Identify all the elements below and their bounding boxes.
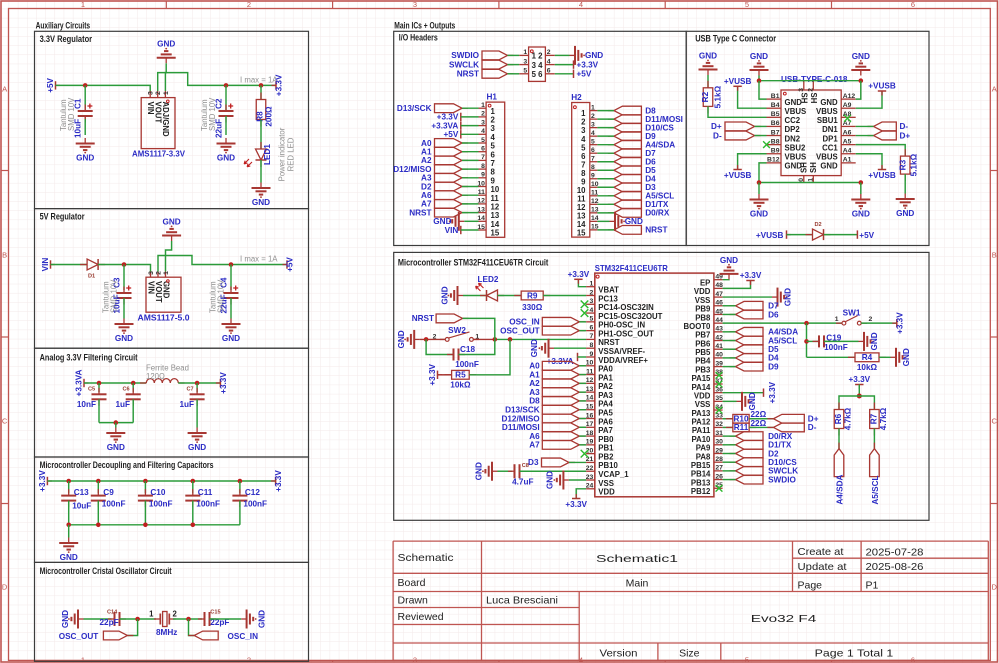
svg-text:330Ω: 330Ω bbox=[522, 303, 543, 312]
junction node C3 top bbox=[122, 262, 127, 267]
net flag D11/MOSI (MCU pin 17) bbox=[579, 426, 585, 428]
net flag NRST (H2 pin 15) bbox=[608, 229, 614, 231]
svg-text:Size: Size bbox=[679, 648, 700, 660]
H1 pin 3 bbox=[479, 125, 487, 127]
junction node R5 tap bbox=[508, 337, 513, 342]
svg-text:GND: GND bbox=[474, 462, 483, 480]
svg-text:+5V: +5V bbox=[46, 77, 55, 92]
wire flag to H1 pin bbox=[462, 203, 479, 205]
no-connect X pin25 PB12 bbox=[716, 485, 723, 492]
net flag A3 (MCU pin 13) bbox=[579, 391, 585, 393]
svg-text:PB4: PB4 bbox=[695, 357, 711, 366]
junction node bottom rail bbox=[143, 523, 148, 528]
svg-text:Schematic: Schematic bbox=[398, 552, 454, 564]
decoupling bottom rail bbox=[69, 524, 240, 526]
svg-text:GND: GND bbox=[546, 471, 555, 489]
svg-text:GND: GND bbox=[440, 286, 449, 304]
svg-text:GND: GND bbox=[784, 288, 793, 306]
svg-text:D11/MOSI: D11/MOSI bbox=[502, 423, 540, 432]
net flag D3 (H2 pin 10) bbox=[608, 186, 614, 188]
svg-text:D0/RX: D0/RX bbox=[768, 432, 793, 441]
svg-text:STM32F411CEU6TR: STM32F411CEU6TR bbox=[595, 264, 668, 273]
svg-text:D+: D+ bbox=[711, 122, 722, 131]
wire gnd to pin23 bbox=[569, 479, 586, 481]
svg-text:SW2: SW2 bbox=[448, 326, 466, 335]
svg-text:A4/SDA: A4/SDA bbox=[835, 474, 844, 504]
svg-text:PA4: PA4 bbox=[598, 400, 613, 409]
net flag D2 (MCU pin 29) bbox=[730, 453, 736, 455]
svg-text:D-: D- bbox=[900, 122, 909, 131]
net flag D0/RX (H2 pin 13) bbox=[608, 212, 614, 214]
svg-text:18: 18 bbox=[586, 430, 594, 437]
svg-text:VSS: VSS bbox=[695, 296, 711, 305]
svg-text:GND: GND bbox=[902, 348, 911, 366]
svg-text:SW1: SW1 bbox=[843, 308, 861, 317]
ground below C1 bbox=[84, 138, 86, 144]
svg-text:GND: GND bbox=[852, 210, 870, 219]
svg-text:2: 2 bbox=[807, 88, 814, 92]
svg-text:14: 14 bbox=[477, 215, 485, 222]
wire +3.3V to pullup tee bbox=[858, 385, 860, 397]
svg-text:LED2: LED2 bbox=[478, 275, 499, 284]
svg-text:10: 10 bbox=[477, 180, 485, 187]
svg-text:SMD 10V: SMD 10V bbox=[217, 279, 226, 313]
USB pin B9 (VBUS) bbox=[767, 153, 782, 155]
power flag +5V (H1 pin 4) bbox=[460, 130, 462, 138]
H1 pin 12 bbox=[479, 203, 487, 205]
wire flag to H1 pin bbox=[462, 177, 479, 179]
USB pin A5 (CC1) bbox=[841, 144, 856, 146]
svg-text:8: 8 bbox=[491, 168, 496, 177]
wire SW1 to +3.3V bbox=[861, 322, 897, 324]
USB shield pins SH top bbox=[803, 81, 805, 90]
svg-text:VSS: VSS bbox=[695, 400, 711, 409]
svg-text:A2: A2 bbox=[421, 156, 432, 165]
svg-text:8: 8 bbox=[591, 164, 595, 171]
svg-text:A7: A7 bbox=[421, 200, 432, 209]
svg-text:9: 9 bbox=[591, 173, 595, 180]
svg-text:D1: D1 bbox=[88, 274, 95, 280]
svg-text:5: 5 bbox=[745, 0, 749, 9]
svg-text:R10: R10 bbox=[733, 415, 748, 424]
svg-text:21: 21 bbox=[586, 456, 594, 463]
svg-text:19: 19 bbox=[586, 439, 594, 446]
svg-text:48: 48 bbox=[715, 282, 723, 289]
svg-text:GND: GND bbox=[870, 332, 879, 350]
resistor R11 22 ohm (PA11) bbox=[723, 426, 733, 428]
svg-text:PA15: PA15 bbox=[691, 374, 711, 383]
net flag D1/TX (MCU pin 30) bbox=[730, 444, 736, 446]
connector J1 SWD header body bbox=[529, 47, 546, 81]
wire crystal to C15 bbox=[173, 618, 202, 620]
junction node top rail right bbox=[859, 78, 864, 83]
svg-text:SH: SH bbox=[800, 162, 809, 173]
svg-text:4: 4 bbox=[547, 58, 551, 65]
svg-text:+3.3V: +3.3V bbox=[219, 372, 228, 394]
junction node C7 top bbox=[195, 381, 200, 386]
wire H2 pin to flag bbox=[597, 195, 614, 197]
H2 pin 1 bbox=[590, 110, 598, 112]
svg-text:PB13: PB13 bbox=[691, 478, 711, 487]
svg-text:11: 11 bbox=[586, 368, 593, 375]
switch SW1 bbox=[836, 322, 842, 324]
capacitor C19 100nF bbox=[807, 340, 820, 342]
svg-text:D+: D+ bbox=[808, 415, 819, 424]
svg-text:PB7: PB7 bbox=[695, 331, 710, 340]
svg-text:1: 1 bbox=[163, 91, 170, 95]
section box Microcontroller Decoupling and Filtering Capacitors bbox=[35, 457, 309, 562]
svg-text:4: 4 bbox=[481, 128, 485, 135]
net flag D12/MISO (MCU pin 16) bbox=[579, 418, 585, 420]
svg-text:35: 35 bbox=[715, 395, 723, 402]
svg-text:Luca Bresciani: Luca Bresciani bbox=[486, 595, 558, 607]
svg-text:C9: C9 bbox=[103, 488, 114, 497]
svg-text:PA8: PA8 bbox=[696, 452, 711, 461]
svg-text:+5V: +5V bbox=[577, 70, 592, 79]
wire pin4 to +3.3V bbox=[555, 64, 574, 66]
svg-text:5.1kΩ: 5.1kΩ bbox=[910, 153, 919, 176]
svg-text:+3.3V: +3.3V bbox=[565, 500, 587, 509]
wire R9 to PC13 pin2 bbox=[543, 294, 586, 296]
svg-text:15: 15 bbox=[491, 229, 500, 238]
svg-text:4.7kΩ: 4.7kΩ bbox=[844, 407, 853, 430]
svg-text:PA6: PA6 bbox=[598, 417, 613, 426]
svg-text:2: 2 bbox=[155, 91, 162, 95]
svg-text:+3.3V: +3.3V bbox=[740, 271, 762, 280]
svg-text:PA14: PA14 bbox=[691, 383, 711, 392]
svg-text:B: B bbox=[992, 251, 997, 260]
svg-text:D12/MISO: D12/MISO bbox=[501, 414, 540, 423]
power flag +VUSB (A9) bbox=[856, 91, 882, 108]
svg-text:NRST: NRST bbox=[409, 208, 431, 217]
ground right of C15 bbox=[241, 618, 247, 620]
svg-text:SMD 10V: SMD 10V bbox=[67, 97, 76, 131]
H1 pin 14 bbox=[479, 220, 487, 222]
svg-text:12: 12 bbox=[477, 198, 485, 205]
svg-text:4: 4 bbox=[579, 0, 583, 9]
svg-text:15: 15 bbox=[577, 228, 586, 237]
H2 pin 4 bbox=[590, 135, 598, 137]
wire power flag to H1 pin bbox=[461, 133, 479, 135]
wire flag to H1 pin bbox=[462, 194, 479, 196]
net flag D13/SCK (H1 pin 1) bbox=[462, 107, 468, 109]
ground below C7 bbox=[196, 428, 198, 434]
svg-text:14: 14 bbox=[586, 395, 594, 402]
wire B12 GND to bottom rail bbox=[759, 163, 767, 183]
svg-text:NRST: NRST bbox=[457, 70, 479, 79]
svg-text:27: 27 bbox=[715, 465, 723, 472]
capacitor C7 1uF bbox=[196, 383, 198, 392]
H1 pin 8 bbox=[479, 168, 487, 170]
svg-text:1: 1 bbox=[835, 316, 839, 323]
wire H2 pin to flag bbox=[597, 212, 614, 214]
wire +5V rail to AMS1117-3.3 VIN bbox=[56, 85, 151, 92]
svg-text:1: 1 bbox=[81, 0, 85, 9]
svg-text:A4/SDA: A4/SDA bbox=[768, 328, 798, 337]
svg-text:PC15-OSC32OUT: PC15-OSC32OUT bbox=[598, 312, 662, 321]
H1 pin 9 bbox=[479, 177, 487, 179]
wire OSC_OUT flag to pin6 bbox=[579, 330, 586, 332]
wire flag to H1 pin bbox=[462, 107, 479, 109]
wire R7 to A5/SCL tag bbox=[873, 429, 875, 449]
svg-text:C14: C14 bbox=[107, 610, 118, 616]
svg-text:13: 13 bbox=[491, 211, 500, 220]
wire R8 to LED1 bbox=[260, 120, 262, 149]
svg-text:D-: D- bbox=[808, 423, 817, 432]
svg-text:OSC_IN: OSC_IN bbox=[509, 318, 540, 327]
svg-text:VDD: VDD bbox=[598, 488, 615, 497]
svg-text:R2: R2 bbox=[701, 91, 710, 102]
svg-text:PA12: PA12 bbox=[691, 418, 711, 427]
svg-text:RED LED: RED LED bbox=[287, 137, 296, 171]
svg-text:A3: A3 bbox=[421, 174, 432, 183]
svg-text:AMS1117-3.3V: AMS1117-3.3V bbox=[132, 150, 186, 159]
wire pin6 to +5V bbox=[555, 73, 574, 75]
svg-text:45: 45 bbox=[715, 308, 723, 315]
svg-text:B5: B5 bbox=[771, 111, 780, 118]
power flag +3.3V (filter output) bbox=[216, 382, 221, 384]
svg-text:D7: D7 bbox=[768, 302, 779, 311]
svg-text:H1: H1 bbox=[487, 93, 498, 102]
wire D+ flag to B6 bbox=[755, 125, 767, 127]
wire OSC_IN flag to pin5 bbox=[579, 321, 586, 323]
svg-text:47: 47 bbox=[715, 291, 723, 298]
net flag D4 (H2 pin 9) bbox=[608, 178, 614, 180]
svg-text:10uF: 10uF bbox=[72, 502, 91, 511]
ground left of SW2 bbox=[414, 338, 420, 340]
svg-text:GND: GND bbox=[397, 330, 406, 348]
wire SW2 to MCU NRST pin7 bbox=[473, 338, 495, 340]
wire to R4 bbox=[807, 356, 856, 358]
wire tee to R6 bbox=[839, 396, 859, 410]
ground right of VSS pin47 bbox=[723, 296, 772, 298]
svg-text:GND: GND bbox=[820, 98, 838, 107]
svg-text:OSC_IN: OSC_IN bbox=[228, 632, 259, 641]
svg-text:Reviewed: Reviewed bbox=[398, 611, 444, 623]
H2 pin 2 bbox=[590, 118, 598, 120]
svg-text:PA5: PA5 bbox=[598, 409, 613, 418]
junction node C13 top bbox=[66, 479, 71, 484]
svg-text:PB5: PB5 bbox=[695, 348, 711, 357]
svg-text:PH0-OSC_IN: PH0-OSC_IN bbox=[598, 321, 645, 330]
wire D2 to +5V bbox=[824, 234, 858, 236]
wire SWDIO to pin1 bbox=[508, 54, 520, 56]
svg-text:PB2: PB2 bbox=[598, 452, 614, 461]
wire R3 to ground bbox=[904, 174, 906, 193]
junction node C10 top bbox=[143, 479, 148, 484]
net flag OSC_IN (pin5) bbox=[579, 321, 585, 323]
svg-text:5 6: 5 6 bbox=[532, 70, 544, 79]
USB pin A6 (DP1) bbox=[841, 135, 856, 137]
svg-text:SWCLK: SWCLK bbox=[768, 467, 798, 476]
wire H2 pin to flag bbox=[597, 127, 614, 129]
ground below LED1 bbox=[260, 183, 262, 189]
svg-text:12: 12 bbox=[586, 377, 594, 384]
H2 pin 12 bbox=[590, 203, 598, 205]
power flag +5V (D2 cathode) bbox=[856, 230, 858, 238]
svg-text:39: 39 bbox=[715, 360, 723, 367]
svg-text:5: 5 bbox=[523, 68, 527, 75]
svg-text:29: 29 bbox=[715, 447, 723, 454]
net flag D2 (H1 pin 10) bbox=[462, 186, 468, 188]
power flag +3.3V (SWD pin4) bbox=[573, 60, 575, 68]
wire BOOT0 branch down bbox=[806, 323, 808, 357]
capacitor C8 4.7uF bbox=[508, 470, 515, 472]
ground bottom-left USB bbox=[758, 183, 760, 195]
resistor R7 4.7k bbox=[873, 403, 875, 410]
power flag +5V (SWD pin6) bbox=[573, 70, 575, 78]
resistor R2 5.1k bbox=[707, 75, 709, 88]
svg-text:1: 1 bbox=[163, 271, 170, 275]
svg-text:10kΩ: 10kΩ bbox=[450, 381, 471, 390]
power flag +3.3VA (pin9) bbox=[577, 353, 579, 361]
svg-text:GND: GND bbox=[896, 209, 914, 218]
wire flag to H1 pin bbox=[462, 151, 479, 153]
svg-text:BOOT0: BOOT0 bbox=[684, 322, 712, 331]
svg-text:3: 3 bbox=[591, 121, 595, 128]
power flag +3.3V (VDD pin48) bbox=[723, 281, 751, 289]
ground (H2 pin 14) bbox=[610, 220, 616, 222]
svg-text:+VUSB: +VUSB bbox=[724, 171, 752, 180]
svg-text:VIN: VIN bbox=[445, 226, 459, 235]
net flag D7 (H2 pin 6) bbox=[608, 152, 614, 154]
svg-text:D5: D5 bbox=[768, 345, 779, 354]
svg-text:A6: A6 bbox=[843, 129, 852, 136]
junction node C5-C6 gnd bbox=[114, 420, 119, 425]
wire flag to H1 pin bbox=[462, 159, 479, 161]
wire flag to H1 pin bbox=[462, 212, 479, 214]
capacitor C14 22pF bbox=[108, 618, 115, 620]
svg-text:4: 4 bbox=[591, 130, 595, 137]
wire H2 pin to flag bbox=[597, 186, 614, 188]
frame ruler ticks left/right bbox=[1, 170, 9, 172]
svg-text:GND: GND bbox=[222, 334, 240, 343]
power flag +VUSB (D2 anode) bbox=[787, 234, 792, 236]
junction node top rail left bbox=[757, 78, 762, 83]
capacitor C13 10uF bbox=[68, 481, 70, 493]
svg-text:100nF: 100nF bbox=[149, 500, 173, 509]
wire R10 to D+ flag bbox=[749, 418, 773, 420]
junction node C1 top bbox=[83, 83, 88, 88]
H1 pin 7 bbox=[479, 159, 487, 161]
svg-text:120Ω: 120Ω bbox=[146, 372, 165, 381]
wire R6 to A4/SDA tag bbox=[838, 429, 840, 449]
svg-text:GND: GND bbox=[252, 198, 270, 207]
H1 pin 2 bbox=[479, 116, 487, 118]
ground to VSSA pin8 bbox=[549, 347, 555, 349]
net flag A5/SCL (H2 pin 11) bbox=[608, 195, 614, 197]
svg-text:PA11: PA11 bbox=[692, 426, 711, 435]
svg-text:26: 26 bbox=[715, 473, 723, 480]
svg-text:D6: D6 bbox=[768, 310, 779, 319]
net flag A7 (H1 pin 12) bbox=[462, 203, 468, 205]
wire tee to R7 bbox=[859, 396, 874, 410]
svg-text:9: 9 bbox=[590, 351, 594, 358]
junction node OSC_IN tap bbox=[186, 617, 191, 622]
svg-text:D2: D2 bbox=[421, 182, 432, 191]
svg-text:6: 6 bbox=[911, 656, 915, 663]
power flag +3.3V (R5 pullup) bbox=[438, 374, 443, 376]
svg-text:VBAT: VBAT bbox=[598, 286, 619, 295]
net flag D10/CS (MCU pin 28) bbox=[730, 461, 736, 463]
switch SW2 bbox=[440, 338, 445, 340]
junction node bottom rail bbox=[191, 523, 196, 528]
svg-text:DP2: DP2 bbox=[785, 125, 801, 134]
svg-text:14: 14 bbox=[491, 220, 500, 229]
svg-text:PB12: PB12 bbox=[691, 487, 711, 496]
net flag A0 (MCU pin 10) bbox=[579, 365, 585, 367]
svg-text:GND: GND bbox=[258, 610, 267, 628]
svg-text:AMS1117-5.0: AMS1117-5.0 bbox=[138, 314, 190, 323]
wire top gnd to shield rail bbox=[758, 76, 760, 81]
net flag D13/SCK (MCU pin 15) bbox=[579, 409, 585, 411]
USB pin B4 (VBUS) bbox=[767, 107, 782, 109]
no-connect X pin3 bbox=[581, 300, 589, 308]
ground left of LED2 bbox=[458, 294, 464, 296]
connector USB-TYPE-C-018 body bbox=[781, 90, 841, 176]
svg-text:B7: B7 bbox=[771, 129, 780, 136]
svg-text:3.3V Regulator: 3.3V Regulator bbox=[40, 33, 93, 44]
regulator U AMS1117-3.3 bbox=[141, 98, 175, 149]
power flag VIN (H1 pin 15) bbox=[460, 226, 462, 234]
svg-text:44: 44 bbox=[715, 317, 723, 324]
svg-text:3: 3 bbox=[523, 58, 527, 65]
power flag +3.3VA (H1 pin 3) bbox=[460, 121, 462, 129]
svg-text:GND: GND bbox=[748, 392, 757, 410]
svg-text:10: 10 bbox=[491, 185, 500, 194]
wire NRST to pin5 bbox=[508, 73, 520, 75]
capacitor C12 100nF bbox=[239, 481, 241, 493]
svg-text:C6: C6 bbox=[123, 387, 130, 393]
svg-text:32: 32 bbox=[715, 421, 723, 428]
net flag A2 (MCU pin 12) bbox=[579, 382, 585, 384]
svg-text:7: 7 bbox=[590, 333, 594, 340]
svg-text:PH1-OSC_OUT: PH1-OSC_OUT bbox=[598, 329, 654, 338]
svg-text:+3.3V: +3.3V bbox=[568, 270, 590, 279]
svg-text:A0: A0 bbox=[421, 139, 432, 148]
resistor R3 5.1k bbox=[904, 149, 906, 156]
wire to OSC_OUT flag bbox=[127, 619, 137, 636]
svg-text:6: 6 bbox=[491, 150, 496, 159]
svg-text:R11: R11 bbox=[734, 423, 749, 432]
svg-text:B4: B4 bbox=[771, 102, 780, 109]
svg-text:GND: GND bbox=[530, 339, 539, 357]
svg-text:+3.3VA: +3.3VA bbox=[75, 369, 84, 396]
svg-text:SMD 10V: SMD 10V bbox=[208, 97, 217, 131]
svg-text:GND: GND bbox=[785, 98, 803, 107]
H2 pin 9 bbox=[590, 178, 598, 180]
svg-text:11: 11 bbox=[478, 189, 485, 196]
svg-text:D2: D2 bbox=[768, 449, 779, 458]
capacitor C18 100nF parallel branch bbox=[426, 339, 453, 354]
power flag +3.3V (VDD pin24) bbox=[576, 489, 586, 499]
svg-text:Drawn: Drawn bbox=[398, 595, 429, 607]
section box 5V Regulator bbox=[35, 209, 309, 349]
H1 pin 13 bbox=[479, 212, 487, 214]
svg-text:SMD 10V: SMD 10V bbox=[110, 279, 119, 313]
net flag D1/TX (H2 pin 12) bbox=[608, 203, 614, 205]
USB pin B1 (GND) bbox=[767, 98, 782, 100]
capacitor C15 22pF bbox=[198, 618, 205, 620]
wire NRST flag over to net bbox=[463, 318, 495, 339]
svg-text:DN1: DN1 bbox=[822, 125, 838, 134]
svg-text:VDDA/VREF+: VDDA/VREF+ bbox=[598, 356, 648, 365]
net flag A6 (H1 pin 11) bbox=[462, 194, 468, 196]
wire H2 pin to flag bbox=[597, 144, 614, 146]
H2 pin 6 bbox=[590, 152, 598, 154]
svg-text:+3.3V: +3.3V bbox=[274, 470, 283, 492]
svg-text:A5/SCL: A5/SCL bbox=[768, 336, 797, 345]
